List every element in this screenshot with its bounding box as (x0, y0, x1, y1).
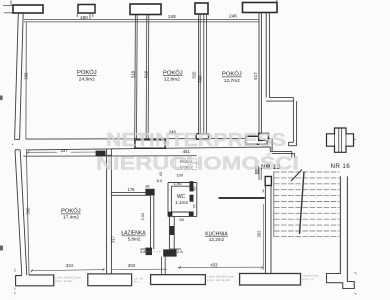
bathroom left wall foot into box2 (106, 273, 108, 275)
svg-text:88: 88 (146, 185, 150, 189)
left outer wall upper (15, 13, 24, 139)
svg-text:518: 518 (143, 70, 148, 78)
wall below WC end block (163, 249, 176, 256)
svg-text:560: 560 (26, 207, 31, 215)
room 4 inner left face (26, 150, 29, 275)
chimney cross NR 16 (327, 128, 354, 152)
svg-text:203: 203 (128, 263, 136, 268)
room 3 right wall (259, 13, 261, 133)
svg-text:przyn. obu pl.zab: przyn. obu pl.zab (207, 278, 230, 282)
mid wall horizontal bottom line (26, 147, 270, 150)
room label bathroom (121, 231, 146, 242)
small wall left of NR13 (256, 166, 258, 174)
svg-text:17,4m2: 17,4m2 (63, 214, 79, 220)
wall rooms 2-3 (198, 15, 206, 134)
svg-text:302: 302 (256, 230, 261, 238)
dim 433 with line (178, 262, 263, 269)
stair rail short (291, 170, 302, 182)
svg-text:przyn. pl: przyn. pl (302, 277, 314, 281)
svg-text:518: 518 (131, 70, 136, 78)
room 4 / corridor upper face line (23, 155, 196, 158)
svg-text:POKÓJ: POKÓJ (77, 69, 97, 76)
WC right wall dark segments (190, 181, 194, 191)
svg-text:przyn. pl.zab.: przyn. pl.zab. (55, 279, 73, 283)
svg-text:520: 520 (191, 71, 196, 79)
kitchen right wall pier (265, 177, 271, 186)
bathroom right wall (140, 195, 153, 249)
door head box mid wall centre (135, 140, 165, 148)
junction block bathroom-WC (145, 189, 154, 196)
kitchen duct tick (259, 168, 263, 193)
svg-text:317: 317 (110, 235, 115, 243)
wall end box room 3 right (259, 133, 269, 140)
bottom wall box 2 (88, 274, 132, 286)
bathroom right wall end block (146, 248, 152, 256)
left wall door tick (11, 144, 14, 145)
svg-text:508: 508 (197, 75, 202, 83)
dim 337 with dim line (27, 148, 105, 154)
svg-text:6,0: 6,0 (157, 178, 163, 183)
room 1 inner left face (25, 22, 27, 139)
stairwell right wall (327, 176, 355, 288)
room label 1 (77, 69, 97, 82)
svg-text:12,8m2: 12,8m2 (164, 77, 180, 83)
svg-text:76: 76 (192, 205, 196, 209)
mid wall step right (270, 138, 297, 157)
dashed tick above (14, 269, 16, 273)
svg-text:24,9m2: 24,9m2 (79, 76, 95, 82)
room label kitchen (205, 231, 228, 242)
pier bar top-right (243, 3, 278, 13)
bottom wall box 4 (240, 274, 301, 286)
svg-text:POKÓJ: POKÓJ (163, 69, 183, 76)
svg-text:176: 176 (128, 187, 136, 192)
bathroom top wall (111, 193, 150, 196)
bathroom left wall (107, 149, 112, 274)
pier box wall 2-3 (195, 3, 208, 14)
dashed line bottom left (14, 288, 16, 297)
svg-text:98: 98 (179, 217, 184, 222)
mid wall horizontal top line (26, 137, 270, 140)
svg-text:248: 248 (168, 14, 176, 19)
stair rail long (300, 172, 305, 235)
svg-text:2,02: 2,02 (140, 212, 145, 221)
svg-text:334: 334 (66, 263, 74, 268)
right outer wall upper (266, 13, 296, 146)
kitchen counter line (219, 197, 265, 199)
svg-text:NIERUCHOMOŚCI: NIERUCHOMOŚCI (96, 152, 299, 173)
svg-text:POKÓJ: POKÓJ (222, 71, 242, 78)
svg-text:1,90: 1,90 (174, 181, 183, 186)
window sill lines top (24, 19, 259, 22)
svg-text:pl.z.: pl.z. (134, 280, 140, 284)
svg-text:337: 337 (60, 148, 68, 153)
svg-text:508: 508 (24, 72, 29, 80)
dim 334 with line (31, 263, 105, 272)
WC walls (168, 183, 197, 217)
faint text bottom gap 2 (207, 275, 235, 282)
stair treads (274, 172, 340, 236)
window mullion box room 1 (78, 5, 95, 14)
svg-text:2,8: 2,8 (140, 249, 146, 254)
kitchen right wall (265, 186, 271, 274)
room label WC (175, 194, 188, 205)
svg-text:NETINTERPRESS: NETINTERPRESS (106, 130, 286, 150)
wall rooms 1-2 (135, 15, 149, 139)
room label 3 (222, 71, 242, 84)
svg-text:5,8m2: 5,8m2 (128, 236, 141, 241)
dim line kitchen vertical (262, 204, 264, 270)
stair left boundary (273, 172, 275, 238)
svg-text:POKÓJ: POKÓJ (61, 208, 81, 215)
scan edge marks (0, 96, 3, 251)
lower wall to kitchen (161, 257, 165, 275)
svg-text:12,2m2: 12,2m2 (209, 237, 225, 242)
wall below WC (169, 216, 181, 249)
svg-text:12,7m2: 12,7m2 (224, 78, 240, 84)
faint text bottom gap 1 (55, 275, 81, 283)
room label 4 (61, 208, 81, 221)
svg-text:60: 60 (192, 187, 196, 191)
top-left corner tick (3, 0, 277, 19)
bottom wall left step (16, 275, 54, 286)
door swing dashes bathroom (141, 251, 162, 253)
svg-text:246: 246 (229, 13, 237, 18)
svg-text:433: 433 (210, 262, 218, 267)
meter box PC8 (176, 159, 197, 170)
left outer wall lower (15, 150, 27, 276)
pier bar wall 1-2 (130, 4, 161, 15)
wall end box rooms 2-3 (196, 134, 208, 140)
svg-text:NR 16: NR 16 (331, 163, 351, 170)
dim 203 with line (112, 263, 167, 270)
WC bottom corner blocks (168, 212, 172, 216)
bottom wall box 3 (151, 275, 206, 285)
svg-text:480: 480 (80, 15, 88, 20)
step ticks bottom right (355, 272, 357, 294)
wall below WC dark mid bar (170, 226, 175, 235)
door head box mid wall right (246, 136, 268, 144)
dark stub left of bathroom wall (96, 151, 106, 157)
room label 2 (163, 69, 183, 82)
svg-text:1,1m2: 1,1m2 (175, 200, 188, 205)
chimney cross tick (354, 139, 357, 141)
svg-text:517: 517 (253, 72, 258, 80)
pier bar top-left (13, 5, 43, 13)
faint text right of box2 (134, 276, 144, 283)
faint text right of box4 (302, 273, 319, 280)
svg-text:2,8: 2,8 (177, 249, 183, 254)
